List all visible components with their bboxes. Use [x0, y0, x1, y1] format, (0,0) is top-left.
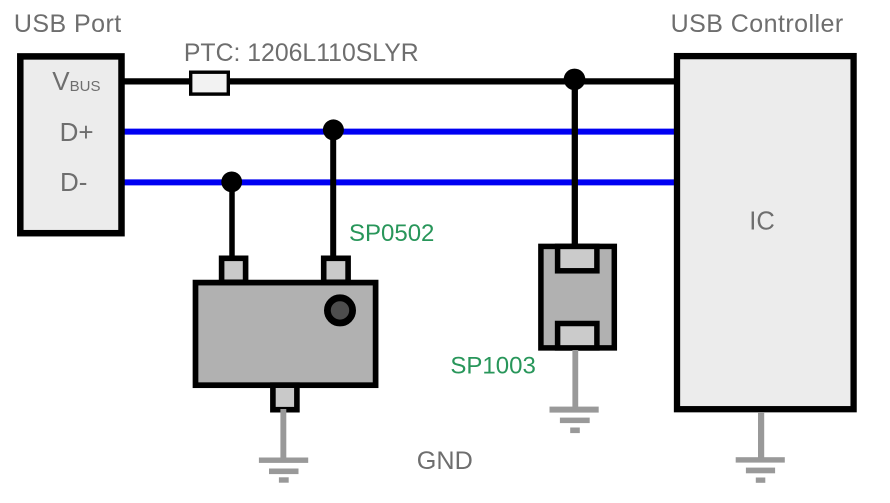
- svg-text:SP1003: SP1003: [450, 352, 535, 379]
- svg-text:D-: D-: [60, 167, 87, 197]
- junction dot on D+: [323, 119, 344, 140]
- PTC fuse F1: [191, 72, 229, 94]
- ground symbol IC: [736, 412, 785, 483]
- TVS diode D1 SP1003 body: [541, 246, 614, 348]
- USB port connector J1: [20, 56, 121, 233]
- SP0502 pin 2 (right top): [324, 258, 348, 282]
- ground symbol SP0502: [259, 409, 308, 483]
- svg-text:USB Controller: USB Controller: [671, 10, 844, 38]
- svg-text:D+: D+: [60, 117, 94, 147]
- SP0502 ground pin (bottom): [273, 385, 297, 410]
- wire D+ junction to SP0502 pin 2: [330, 132, 336, 261]
- svg-text:SP0502: SP0502: [349, 220, 434, 247]
- SP1003 top pad: [558, 246, 597, 270]
- svg-text:GND: GND: [417, 447, 473, 475]
- wire D- junction to SP0502 pin 1: [229, 182, 235, 260]
- ground symbol SP1003: [550, 350, 599, 433]
- svg-text:USB Port: USB Port: [14, 10, 122, 38]
- wire VBUS (net VBUS): [124, 78, 677, 84]
- USB controller IC U2: [677, 56, 854, 409]
- wire D+ (net D+): [124, 129, 677, 135]
- svg-text:PTC: 1206L110SLYR: PTC: 1206L110SLYR: [184, 40, 419, 67]
- wire D- (net D-): [124, 179, 677, 185]
- junction dot on VBUS: [564, 69, 586, 91]
- junction dot on D-: [221, 172, 242, 193]
- TVS diode array U1 SP0502 body: [196, 283, 376, 386]
- SP0502 pin 1 (left top): [222, 258, 246, 282]
- wire VBUS junction to SP1003: [572, 82, 578, 248]
- SP0502 pin-1 marker dot: [327, 298, 352, 323]
- svg-text:IC: IC: [749, 208, 775, 236]
- SP1003 bottom pad: [558, 324, 597, 348]
